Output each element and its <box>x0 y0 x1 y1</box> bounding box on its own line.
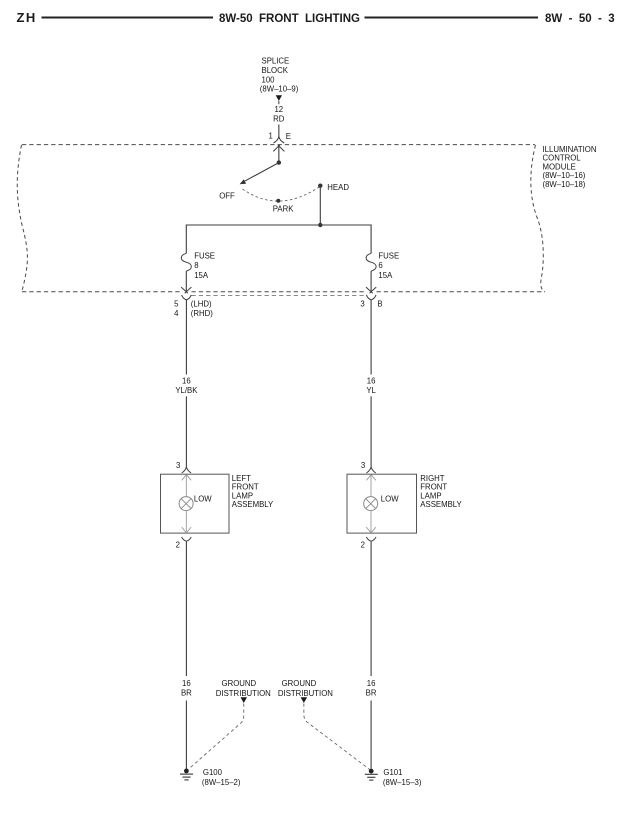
svg-text:6: 6 <box>378 261 382 270</box>
ground distribution label right <box>278 679 333 698</box>
connector fork left pins 5/4 <box>182 295 192 300</box>
left lamp internal bottom arrow <box>182 527 191 533</box>
wire label 12 RD <box>273 105 285 123</box>
wire left fuse to connector <box>185 271 187 292</box>
left ground wire upper <box>185 541 187 676</box>
svg-text:PARK: PARK <box>273 204 294 213</box>
svg-text:100: 100 <box>262 75 276 84</box>
left branch wire upper <box>185 300 187 375</box>
right lamp internal wire lower <box>370 511 372 533</box>
left lamp internal top arrow <box>182 475 191 481</box>
ground G101 label <box>383 768 422 787</box>
svg-text:(8W–10–18): (8W–10–18) <box>543 180 586 189</box>
svg-text:BR: BR <box>181 689 192 698</box>
ground G101 symbol <box>365 769 378 780</box>
svg-text:ASSEMBLY: ASSEMBLY <box>420 500 462 509</box>
wire from connector E to switch pivot <box>278 146 280 163</box>
svg-text:3: 3 <box>361 461 365 470</box>
right ground wire upper <box>370 541 372 676</box>
svg-text:(RHD): (RHD) <box>191 309 213 318</box>
svg-text:2: 2 <box>361 541 365 550</box>
svg-text:15A: 15A <box>378 271 393 280</box>
connector fork pin 1/E <box>274 136 285 143</box>
junction dot on bus <box>318 223 322 227</box>
svg-text:GROUND: GROUND <box>222 679 257 688</box>
illumination control module dashed box left wavy edge <box>17 145 27 292</box>
svg-text:2: 2 <box>176 541 180 550</box>
header rule left <box>42 17 214 19</box>
svg-text:DISTRIBUTION: DISTRIBUTION <box>278 689 333 698</box>
svg-text:8: 8 <box>194 261 198 270</box>
svg-text:1: 1 <box>268 132 272 141</box>
ground G100 label <box>202 768 241 787</box>
illumination control module name label <box>543 145 597 189</box>
pin label 4 (RHD) <box>174 309 213 318</box>
svg-text:16: 16 <box>367 376 376 385</box>
svg-text:(8W–15–2): (8W–15–2) <box>202 778 241 787</box>
left lamp assembly name <box>232 474 274 509</box>
connector arrow right at module edge <box>366 287 376 293</box>
svg-text:DISTRIBUTION: DISTRIBUTION <box>216 689 271 698</box>
left ground wire lower <box>185 701 187 769</box>
svg-text:8W - 50 - 3: 8W - 50 - 3 <box>545 13 615 25</box>
switch position PARK contact dot <box>276 199 280 203</box>
ground distribution triangle right <box>301 697 308 703</box>
connector fork at left lamp pin 3 <box>182 467 191 473</box>
right branch wire lower <box>370 396 372 467</box>
switch throw dashed arc <box>243 186 321 201</box>
illumination control module dashed box right wavy edge <box>531 145 545 292</box>
left branch wire lower <box>185 396 187 467</box>
illumination control module dashed box top edge <box>22 144 535 146</box>
svg-text:G100: G100 <box>203 768 223 777</box>
svg-text:RD: RD <box>273 114 285 123</box>
splice block feed triangle <box>276 95 282 104</box>
left front lamp assembly box <box>161 474 230 533</box>
svg-text:(8W–10–9): (8W–10–9) <box>260 85 299 94</box>
fuse F6 element <box>366 253 376 271</box>
svg-text:BLOCK: BLOCK <box>262 66 289 75</box>
svg-text:(8W–15–3): (8W–15–3) <box>383 778 422 787</box>
connector fork at right lamp pin 3 <box>366 467 375 473</box>
svg-text:FUSE: FUSE <box>194 251 215 260</box>
wire label 16 BR right <box>366 679 377 698</box>
svg-text:LOW: LOW <box>381 494 399 503</box>
splice block 100 label <box>260 57 299 94</box>
svg-text:RIGHT: RIGHT <box>420 474 444 483</box>
ground distribution label left <box>216 679 271 698</box>
svg-text:LAMP: LAMP <box>420 491 441 500</box>
right lamp assembly name <box>420 474 462 509</box>
svg-text:16: 16 <box>182 679 191 688</box>
left lamp internal wire lower <box>185 511 187 533</box>
right lamp internal wire upper <box>370 475 372 497</box>
svg-text:HEAD: HEAD <box>327 183 349 192</box>
wire right fuse to connector <box>370 271 372 292</box>
ground G100 symbol <box>180 769 193 780</box>
right ground wire lower <box>370 701 372 769</box>
ground distribution dashed lead right <box>304 704 370 770</box>
fuse F8 element <box>181 253 191 271</box>
svg-text:BR: BR <box>366 689 377 698</box>
svg-text:15A: 15A <box>194 271 209 280</box>
wire label 16 YL/BK <box>175 376 198 394</box>
switch wiper arrowhead <box>240 179 247 184</box>
svg-text:LAMP: LAMP <box>232 491 253 500</box>
svg-text:B: B <box>377 299 382 308</box>
pin label 5 (LHD) <box>174 299 212 308</box>
svg-text:MODULE: MODULE <box>543 163 576 172</box>
svg-text:LOW: LOW <box>194 494 212 503</box>
svg-text:FUSE: FUSE <box>378 251 399 260</box>
header rule right <box>365 17 539 19</box>
right lamp internal top arrow <box>366 475 375 481</box>
svg-text:OFF: OFF <box>219 191 235 200</box>
svg-text:(8W–10–16): (8W–10–16) <box>543 171 586 180</box>
svg-text:16: 16 <box>182 376 191 385</box>
switch position HEAD contact dot <box>318 184 322 188</box>
wire from HEAD contact down to bus <box>319 186 321 225</box>
svg-text:E: E <box>286 132 291 141</box>
svg-text:YL/BK: YL/BK <box>175 386 198 395</box>
switch pivot junction <box>277 160 281 164</box>
svg-text:16: 16 <box>367 679 376 688</box>
illumination control module dashed box bottom edge <box>22 291 545 293</box>
svg-text:ZH: ZH <box>17 10 37 25</box>
svg-text:3: 3 <box>176 461 180 470</box>
right branch wire upper <box>370 300 372 375</box>
svg-text:YL: YL <box>366 386 376 395</box>
right lamp internal bottom arrow <box>366 527 375 533</box>
svg-text:LEFT: LEFT <box>232 474 251 483</box>
ground distribution dashed lead left <box>190 704 244 769</box>
svg-text:ASSEMBLY: ASSEMBLY <box>232 500 274 509</box>
svg-text:SPLICE: SPLICE <box>262 57 290 66</box>
horizontal bus wire with drops to both fuses <box>186 225 371 253</box>
svg-text:8W-50 FRONT LIGHTING: 8W-50 FRONT LIGHTING <box>219 13 360 25</box>
svg-text:ILLUMINATION: ILLUMINATION <box>543 145 597 154</box>
svg-text:CONTROL: CONTROL <box>543 154 582 163</box>
wire from splice to connector E <box>278 125 280 137</box>
wire label 16 BR left <box>181 679 192 698</box>
svg-text:GROUND: GROUND <box>282 679 317 688</box>
connector band second dashed line <box>192 295 367 297</box>
svg-text:4: 4 <box>174 309 179 318</box>
fuse F6 label <box>378 251 399 279</box>
right front lamp assembly box <box>347 474 417 533</box>
headlamp switch wiper arm <box>244 163 279 182</box>
ground distribution triangle left <box>241 697 248 703</box>
fuse F8 label <box>194 251 215 279</box>
right low beam bulb <box>364 497 378 511</box>
connector arrow below pin E <box>273 145 284 151</box>
wire label 16 YL <box>366 376 376 394</box>
left lamp internal wire upper <box>185 475 187 497</box>
svg-text:3: 3 <box>360 299 364 308</box>
left low beam bulb <box>179 497 193 511</box>
svg-text:FRONT: FRONT <box>420 483 447 492</box>
connector fork right pin 3/B <box>366 295 376 300</box>
connector fork below right lamp pin 2 <box>366 537 376 541</box>
svg-text:FRONT: FRONT <box>232 483 259 492</box>
svg-text:(LHD): (LHD) <box>191 299 212 308</box>
svg-text:G101: G101 <box>383 768 402 777</box>
connector fork below left lamp pin 2 <box>182 537 192 541</box>
svg-text:12: 12 <box>274 105 283 114</box>
connector arrow left at module edge <box>181 287 191 293</box>
svg-text:5: 5 <box>174 299 179 308</box>
